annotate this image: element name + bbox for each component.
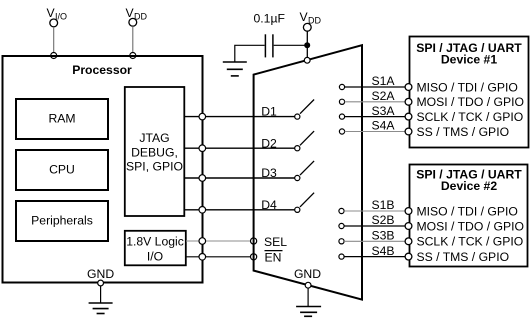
svg-text:MISO / TDI / GPIO: MISO / TDI / GPIO (417, 204, 518, 218)
JTAG DEBUG SPI GPIO block (125, 87, 185, 216)
power terminal VI/O (47, 6, 68, 27)
switch throw contact S4B (339, 254, 344, 259)
ground symbol (mux) (296, 288, 321, 316)
label 1.8V Logic I/O (126, 235, 184, 264)
mux U1 outline (trapezoid) (254, 45, 362, 299)
svg-text:Device #2: Device #2 (441, 179, 497, 193)
switch throw contact S2B (339, 223, 344, 228)
power terminal VDD (mux) (300, 10, 322, 31)
pin MISO/TDI/GPIO (device 2) (405, 208, 412, 215)
switch throw contact S1B (339, 208, 344, 213)
wire capacitor right plate to VDD node (274, 44, 308, 46)
svg-text:GND: GND (87, 267, 114, 281)
svg-text:GND: GND (294, 267, 321, 281)
svg-text:SS / TMS / GPIO: SS / TMS / GPIO (417, 125, 510, 139)
svg-text:D1: D1 (261, 105, 277, 119)
svg-text:S1B: S1B (371, 198, 394, 212)
svg-text:S4B: S4B (371, 244, 394, 258)
svg-text:Peripherals: Peripherals (31, 213, 93, 227)
svg-text:SPI, GPIO: SPI, GPIO (126, 160, 183, 174)
device U3 block: SPI/JTAG/UART Device #2 (410, 165, 528, 267)
wire VDD stem to processor (132, 26, 134, 54)
svg-text:MOSI / TDO / GPIO: MOSI / TDO / GPIO (417, 95, 524, 109)
wire D4: JTAG block to switch pole (185, 209, 296, 211)
pin SS/TMS/GPIO (device 1) (405, 128, 412, 135)
wire S2B to device 2 (344, 225, 405, 227)
svg-text:D4: D4 (261, 198, 277, 212)
overline for EN (265, 250, 283, 252)
svg-text:CPU: CPU (49, 162, 75, 176)
device U2 block: SPI/JTAG/UART Device #1 (410, 37, 529, 148)
switch lever D1 (300, 100, 314, 114)
wire SEL: 1.8V block to mux (186, 240, 251, 242)
pin EN on mux left edge (251, 254, 257, 260)
switch throw contact S2A (339, 99, 344, 104)
wire S3B to device 2 (344, 240, 405, 242)
ground symbol (capacitor) (223, 62, 247, 76)
svg-text:0.1µF: 0.1µF (254, 12, 285, 26)
junction pin D2 on processor right edge (199, 145, 206, 152)
wire D1: JTAG block to switch pole (185, 116, 296, 118)
switch pole contact D1 (295, 114, 300, 119)
junction pin VI/O on processor top (51, 53, 57, 59)
capacitor C1 plates (265, 34, 273, 57)
switch lever D3 (300, 161, 314, 175)
svg-text:DEBUG,: DEBUG, (131, 145, 178, 159)
pin SEL on mux left edge (251, 238, 257, 244)
power terminal VDD (left) (126, 6, 148, 26)
svg-text:Processor: Processor (72, 63, 132, 77)
wire capacitor left plate to ground (235, 45, 265, 61)
wire D2: JTAG block to switch pole (185, 147, 296, 149)
svg-text:D2: D2 (261, 136, 277, 150)
junction pin D3 on processor right edge (199, 175, 206, 182)
svg-text:S2B: S2B (371, 213, 394, 227)
wire D3: JTAG block to switch pole (185, 177, 296, 179)
svg-text:S4A: S4A (371, 119, 395, 133)
pin SS/TMS/GPIO (device 2) (405, 253, 412, 260)
svg-text:MOSI / TDO / GPIO: MOSI / TDO / GPIO (417, 219, 524, 233)
svg-text:I/O: I/O (147, 250, 163, 264)
svg-text:1.8V Logic: 1.8V Logic (126, 235, 184, 249)
pin SCLK/TCK/GPIO (device 2) (405, 238, 412, 245)
pin MOSI/TDO/GPIO (device 1) (405, 98, 412, 105)
junction pin EN on processor right edge (199, 253, 206, 260)
Processor block (3, 56, 203, 283)
label SPI / JTAG / UART Device #2 (416, 168, 522, 194)
1.8V Logic I/O block (125, 231, 186, 265)
svg-text:RAM: RAM (48, 111, 75, 125)
svg-text:SCLK / TCK / GPIO: SCLK / TCK / GPIO (417, 235, 524, 249)
svg-text:MISO / TDI / GPIO: MISO / TDI / GPIO (417, 80, 518, 94)
label JTAG DEBUG, SPI, GPIO (126, 131, 183, 173)
svg-text:EN: EN (265, 251, 282, 265)
svg-text:S1A: S1A (371, 74, 395, 88)
svg-text:S2A: S2A (371, 89, 395, 103)
switch throw contact S1A (339, 84, 344, 89)
wire EN: 1.8V block to mux (186, 256, 251, 258)
wire S1B to device 2 (344, 210, 405, 212)
switch throw contact S4A (339, 129, 344, 134)
pin GND on mux bottom edge (305, 282, 311, 288)
junction pin VDD on processor top (130, 53, 136, 59)
wire S3A to device 1 (345, 116, 406, 118)
svg-text:SEL: SEL (264, 235, 287, 249)
pin MOSI/TDO/GPIO (device 2) (405, 223, 412, 230)
wire S1A to device 1 (345, 86, 406, 88)
svg-text:JTAG: JTAG (139, 131, 169, 145)
wire VI/O stem to processor (53, 27, 55, 54)
label SPI / JTAG / UART Device #1 (416, 41, 522, 67)
svg-text:S3B: S3B (371, 229, 394, 243)
junction dot VDD/capacitor node (304, 42, 310, 48)
switch pole contact D3 (295, 175, 300, 180)
CPU block (16, 150, 108, 190)
wire S4A to device 1 (345, 131, 406, 133)
svg-text:SS / TMS / GPIO: SS / TMS / GPIO (417, 250, 510, 264)
svg-text:D3: D3 (261, 166, 277, 180)
switch lever D2 (300, 131, 314, 145)
Peripherals block (16, 201, 108, 241)
ground symbol (processor) (89, 286, 113, 314)
pin VDD on mux top edge (304, 57, 310, 63)
pin GND on processor bottom (98, 280, 104, 286)
svg-text:Device #1: Device #1 (441, 53, 497, 67)
svg-text:S3A: S3A (371, 104, 395, 118)
RAM block (16, 99, 108, 139)
switch throw contact S3A (339, 114, 344, 119)
pin MISO/TDI/GPIO (device 1) (405, 84, 412, 91)
switch lever D4 (300, 193, 314, 207)
junction pin D1 on processor right edge (199, 113, 206, 120)
wire S2A to device 1 (345, 101, 406, 103)
junction pin SEL on processor right edge (199, 238, 206, 245)
wire VDD stem to mux top (306, 31, 308, 58)
switch pole contact D2 (295, 146, 300, 151)
wire S4B to device 2 (344, 256, 405, 258)
svg-text:SCLK / TCK / GPIO: SCLK / TCK / GPIO (417, 110, 524, 124)
switch pole contact D4 (295, 207, 300, 212)
junction pin D4 on processor right edge (199, 207, 206, 214)
pin SCLK/TCK/GPIO (device 1) (405, 113, 412, 120)
switch throw contact S3B (339, 239, 344, 244)
